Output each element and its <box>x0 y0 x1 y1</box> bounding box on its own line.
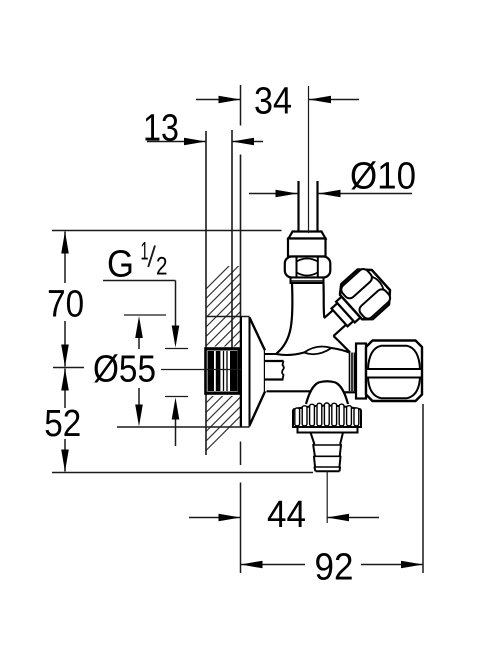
wall surface line (right) <box>231 130 233 349</box>
svg-text:Ø55: Ø55 <box>93 349 156 391</box>
body to outlet top contour <box>332 348 351 353</box>
wall hatching <box>206 254 241 451</box>
flange top tangent line <box>206 316 250 318</box>
dim 34 arrow left <box>196 99 241 101</box>
O55 axis leader <box>161 369 241 371</box>
inlet tube right edge <box>322 283 325 318</box>
outlet threads <box>350 353 355 392</box>
svg-text:70: 70 <box>47 284 84 326</box>
dim 92 line right <box>361 564 423 566</box>
G 1/2 tick bottom <box>165 396 188 398</box>
G 1/2 leader underline <box>103 280 176 282</box>
branch collar <box>336 296 361 322</box>
dim 13 arrow right <box>232 141 263 143</box>
dim O10 arrow right <box>319 193 413 195</box>
dim 52 line with arrows <box>64 369 66 409</box>
dim 44 arrow right <box>327 517 379 519</box>
dim 34 extension line <box>240 85 242 126</box>
wall flange bell <box>241 317 265 427</box>
serrated neck block <box>265 361 284 380</box>
dim 92 line left <box>241 564 306 566</box>
body bottom ledge right <box>344 391 356 393</box>
G 1/2 tick top <box>165 348 188 350</box>
wall surface line (left) <box>205 131 207 455</box>
G 1/2 lower arrow <box>172 398 180 420</box>
knurled wheel <box>293 403 361 427</box>
inlet tube left edge <box>277 283 293 354</box>
outlet cap nut <box>366 341 422 402</box>
pipe center line / dim 34 right extension <box>308 86 310 233</box>
bottom reference line <box>52 472 313 474</box>
G1/2 threaded spigot through wall <box>206 349 240 394</box>
label G 1/2 <box>107 238 168 286</box>
svg-text:92: 92 <box>315 547 354 589</box>
svg-text:Ø10: Ø10 <box>350 156 416 198</box>
top reference line <box>52 230 282 232</box>
branch compression ring <box>331 303 353 326</box>
dim O55 lower arrow <box>138 388 140 405</box>
svg-text:2: 2 <box>156 253 168 281</box>
body top contour <box>276 353 304 355</box>
upper branch fitting (45deg outlet) <box>311 263 397 347</box>
compression sleeve <box>289 232 326 239</box>
svg-text:13: 13 <box>143 108 179 150</box>
dim 34 arrow right <box>309 99 359 101</box>
lower outlet dome <box>306 381 348 404</box>
hose barb center line <box>326 472 328 524</box>
dim O55 top tick <box>124 314 166 316</box>
wheel lower ring <box>298 427 358 433</box>
dim 44 arrow left <box>189 517 241 519</box>
flange bottom tangent line <box>117 426 250 428</box>
branch neck <box>320 310 346 336</box>
compression fitting lower ring <box>291 278 324 284</box>
dim 70 line with arrows <box>64 232 66 284</box>
G 1/2 leader vertical with arrow <box>175 281 177 327</box>
dim 13 arrow left <box>147 141 206 143</box>
dim O10 arrow left <box>249 193 298 195</box>
valve body fill <box>265 283 356 404</box>
hose barb <box>311 433 344 472</box>
svg-text:52: 52 <box>44 403 81 445</box>
branch cap nut <box>335 263 396 325</box>
body curve under branch <box>334 336 351 352</box>
leaf intersection curve <box>304 347 332 355</box>
compression nut cylinder <box>288 239 326 257</box>
svg-text:G: G <box>107 244 134 286</box>
svg-text:44: 44 <box>267 494 306 536</box>
axis tick <box>53 367 84 369</box>
flange back edge line <box>240 155 242 428</box>
dim 44 left extension <box>240 442 242 466</box>
dim O55 upper arrow <box>135 316 143 338</box>
body bottom ledge left <box>267 390 311 392</box>
compression hex nut <box>285 257 331 278</box>
svg-text:34: 34 <box>254 81 292 123</box>
body top ledge <box>265 353 276 355</box>
outlet collar <box>356 344 366 399</box>
inlet pipe <box>297 181 299 231</box>
svg-text:1: 1 <box>141 238 149 266</box>
dim 92 right extension <box>422 404 424 573</box>
